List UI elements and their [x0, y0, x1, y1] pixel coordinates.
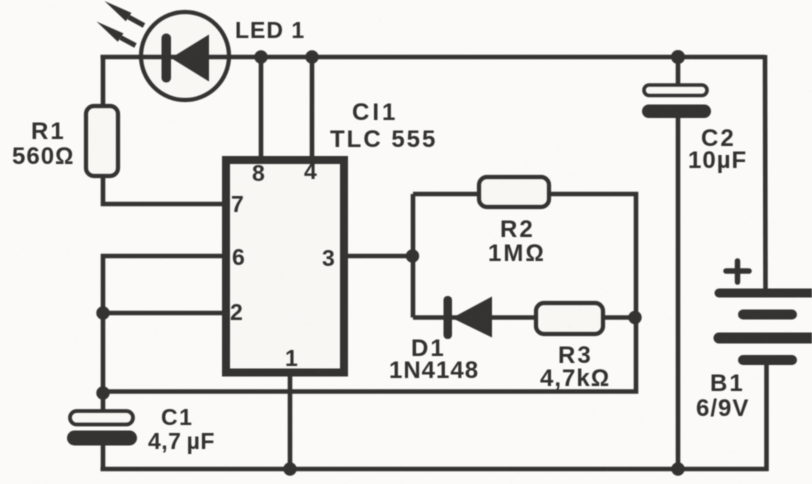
wire C2 lower lead [676, 115, 681, 469]
wire D1 row [413, 315, 636, 320]
LED light arrow upper [105, 1, 145, 26]
wire left drop to R1 [101, 55, 106, 110]
resistor R3 [536, 303, 603, 334]
wire top rail [101, 55, 766, 60]
wire pin 1 to ground rail [288, 375, 293, 469]
LED cathode bar [162, 34, 172, 83]
wire R2/D1 left column [411, 194, 416, 318]
wire pin 2 [103, 311, 224, 316]
wire through LED [141, 55, 230, 60]
wire pin 3 output [346, 254, 413, 259]
op-amp/IC U1 box TLC555 [226, 160, 344, 373]
capacitor C2 top plate [644, 85, 707, 96]
battery B1 plate 1 long [719, 289, 812, 298]
node dot pin4 top [305, 50, 318, 63]
wire threshold bottom run [103, 318, 636, 392]
wire C1 upper lead [101, 393, 106, 414]
diode D1 cathode bar [444, 296, 453, 339]
LED anode triangle [171, 35, 209, 82]
node dot R3 right [628, 311, 641, 324]
diode D1 triangle [452, 297, 492, 338]
capacitor C2 bottom plate [642, 105, 711, 119]
wire pin 8 drop [259, 57, 264, 160]
node dot pin3 [406, 249, 419, 262]
battery B1 plus sign [726, 261, 749, 282]
node dot C2 top [671, 50, 685, 64]
wire right rail [763, 55, 768, 292]
node dot C1 top [96, 386, 109, 399]
wire pin 6 to left column [103, 256, 224, 395]
resistor R2 [479, 177, 549, 207]
capacitor C1 bottom plate [67, 431, 137, 446]
wire R2 top run [413, 194, 636, 320]
node dot pin2 left [96, 306, 109, 319]
capacitor C1 top plate [70, 411, 133, 425]
node dot C2 bottom [671, 462, 684, 475]
battery B1 plate 3 long [719, 333, 812, 344]
wire pin 4 drop [310, 57, 315, 160]
LED LED1 symbol circle [141, 12, 229, 100]
battery B1 plate 4 short [743, 355, 792, 365]
resistor R1 [86, 106, 118, 176]
wire C2 branch [676, 57, 681, 88]
node dot pin1 bottom [283, 462, 296, 475]
node dot pin8 top [254, 50, 267, 63]
wire C1 lower lead [101, 443, 106, 471]
wire bottom rail [101, 467, 769, 472]
LED light arrow lower [97, 22, 136, 46]
wire battery negative lead [764, 360, 769, 471]
battery B1 plate 2 short [743, 310, 792, 320]
wire R1 bottom to pin 7 [103, 172, 224, 204]
